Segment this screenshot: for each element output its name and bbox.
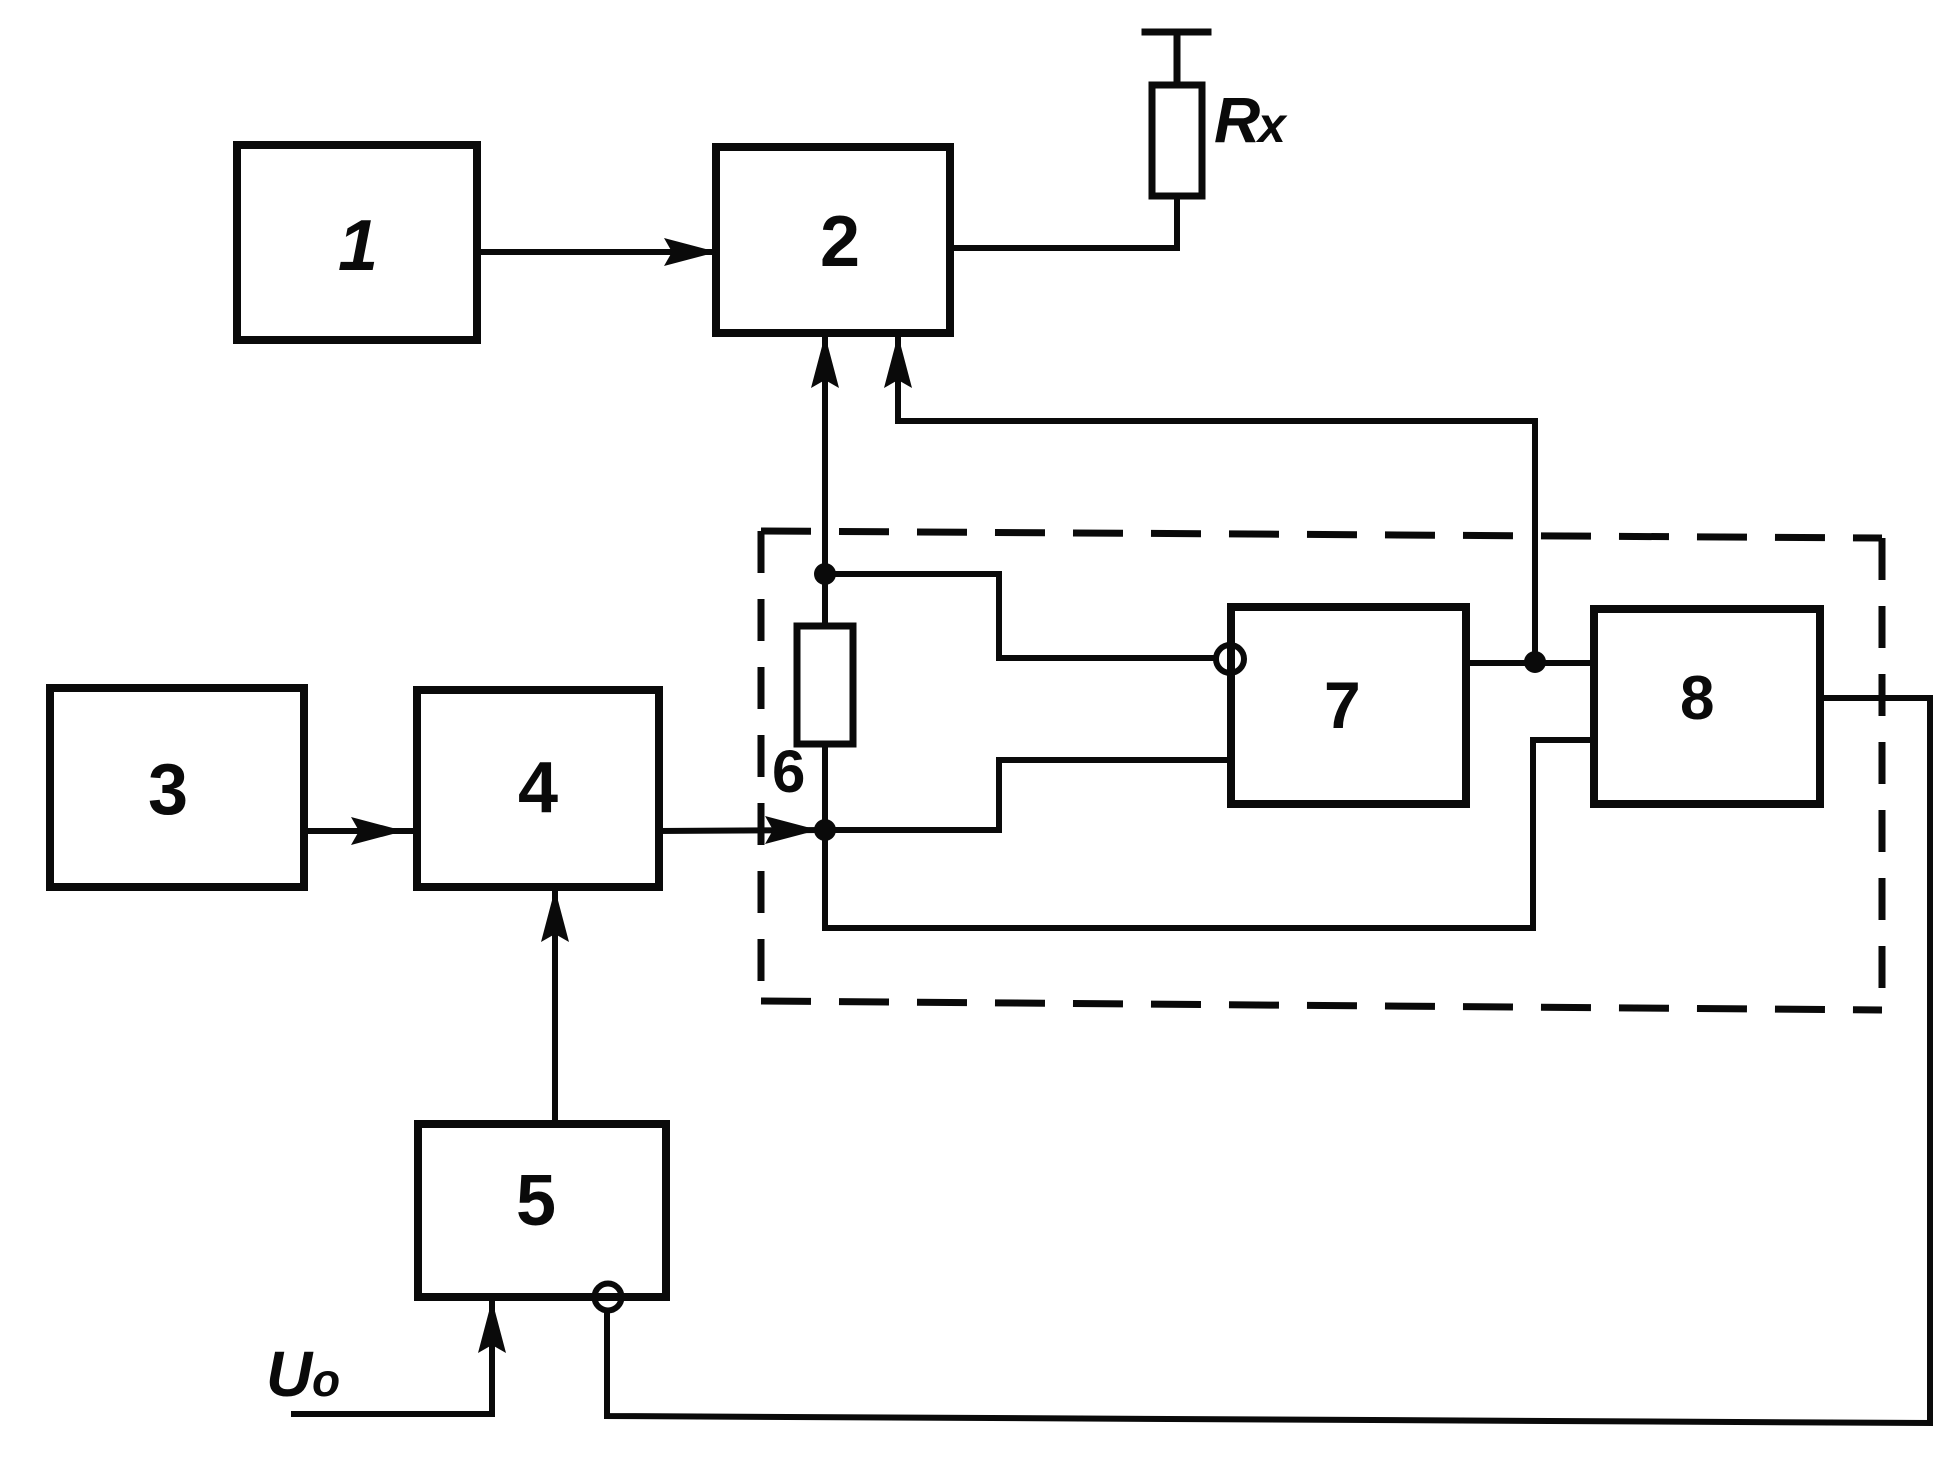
- svg-text:R: R: [1214, 84, 1260, 156]
- svg-text:2: 2: [820, 202, 860, 282]
- svg-text:o: o: [312, 1354, 340, 1406]
- svg-text:1: 1: [338, 206, 378, 286]
- svg-text:8: 8: [1680, 664, 1714, 733]
- svg-text:7: 7: [1324, 668, 1361, 742]
- svg-text:4: 4: [518, 748, 558, 828]
- svg-text:x: x: [1255, 97, 1288, 153]
- svg-text:U: U: [266, 1338, 314, 1410]
- svg-text:5: 5: [516, 1161, 556, 1241]
- svg-text:6: 6: [772, 738, 805, 805]
- svg-text:3: 3: [148, 750, 188, 830]
